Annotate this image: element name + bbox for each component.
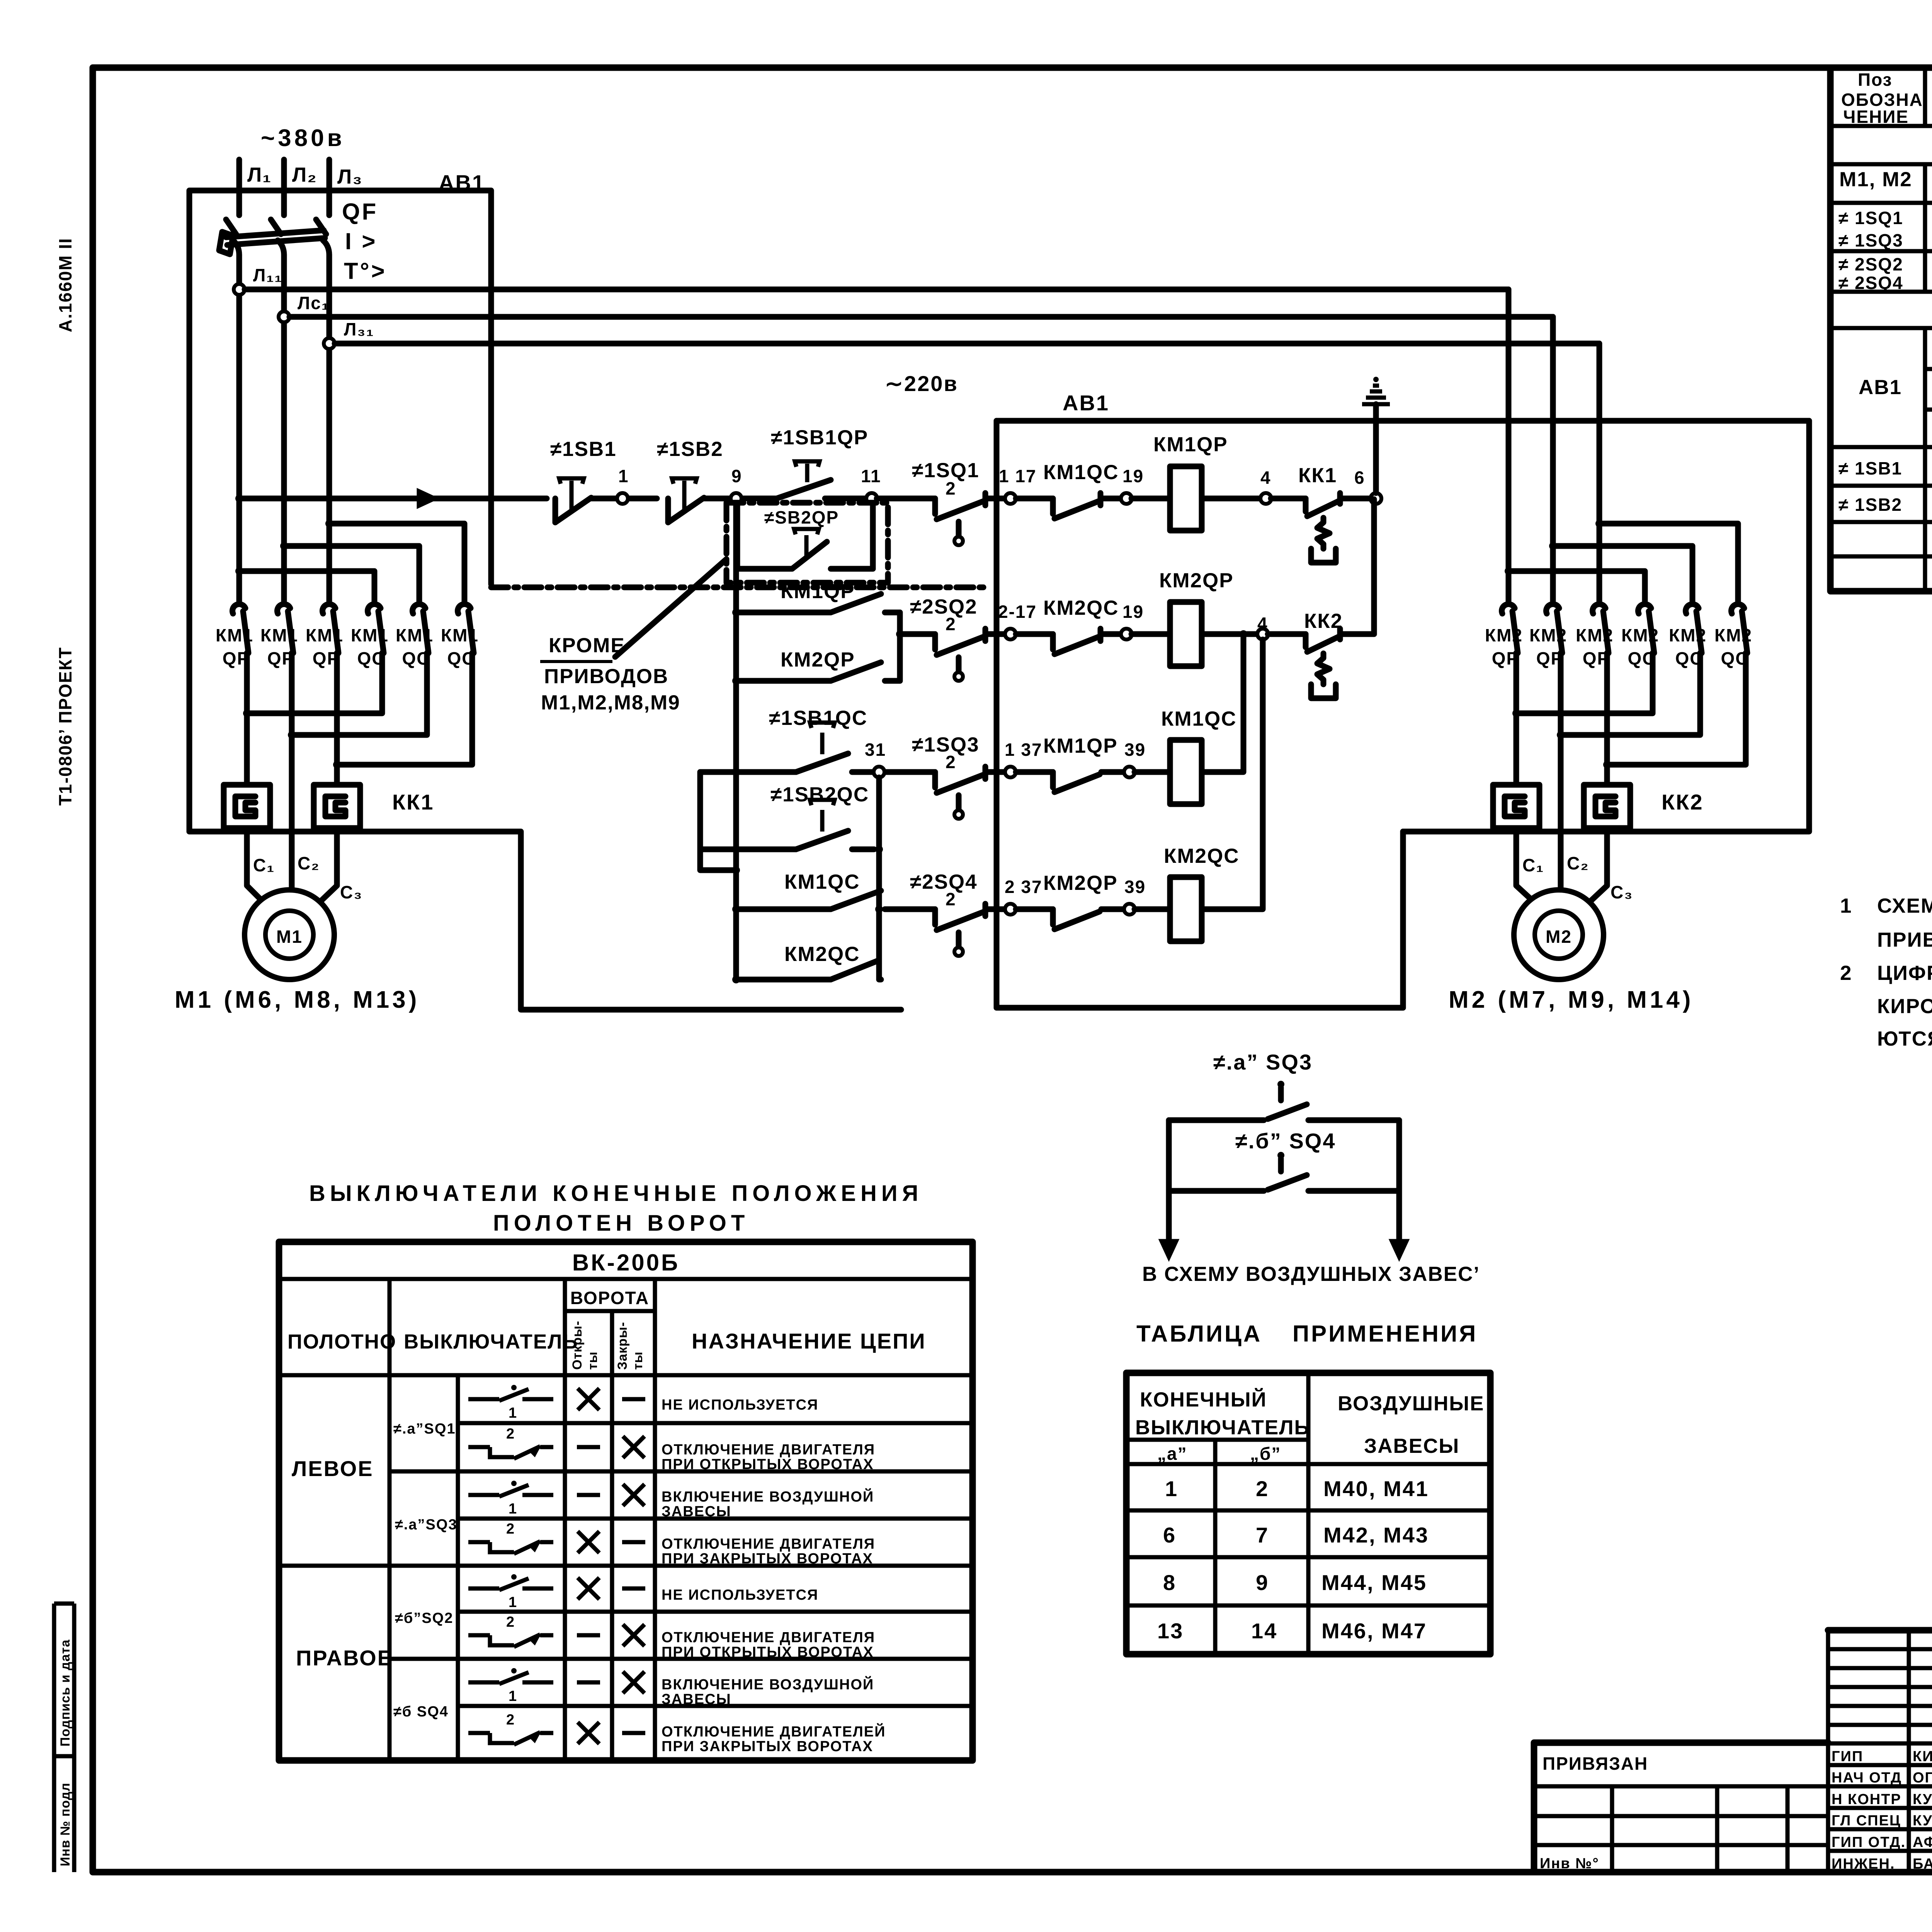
VK table symbol subcolumn line: [456, 1375, 460, 1760]
wire C3 output: [334, 653, 340, 785]
svg-text:2: 2: [506, 1614, 515, 1630]
svg-text:4: 4: [1257, 614, 1268, 634]
title block vertical 4731: [1826, 1630, 1830, 1872]
svg-text:В СХЕМУ ВОЗДУШНЫХ ЗАВЕС’: В СХЕМУ ВОЗДУШНЫХ ЗАВЕС’: [1142, 1263, 1480, 1286]
arrow down right: [1396, 1191, 1402, 1243]
svg-text:ГИП ОТД.: ГИП ОТД.: [1832, 1834, 1906, 1850]
svg-text:6: 6: [1163, 1523, 1176, 1547]
thermal relay KK2 heater phase C1: [1493, 785, 1539, 828]
VK marks row3: [577, 1493, 600, 1497]
svg-text:2-17: 2-17: [998, 602, 1037, 622]
svg-text:КМ1QР: КМ1QР: [1153, 433, 1228, 456]
svg-text:КУЗНЕЦОВ: КУЗНЕЦОВ: [1913, 1813, 1932, 1829]
wire control feed: [239, 496, 547, 502]
svg-text:Поз: Поз: [1858, 70, 1892, 90]
svg-text:КК1: КК1: [392, 790, 434, 814]
svg-text:ЛЕВОЕ: ЛЕВОЕ: [292, 1456, 374, 1481]
wire row4 left stub: [885, 906, 935, 912]
VK table header bottom line: [279, 1373, 973, 1378]
coil KM2QC: [1170, 877, 1202, 941]
svg-text:„а”: „а”: [1157, 1444, 1187, 1464]
wire right crossover to contact 6: [1599, 524, 1738, 601]
svg-text:2: 2: [506, 1712, 515, 1728]
svg-text:≠б SQ4: ≠б SQ4: [393, 1704, 449, 1720]
svg-text:ЦИФРЫ В ЛЕВОЙ ЧАСТИ ОБОЗНАЧЕН: ЦИФРЫ В ЛЕВОЙ ЧАСТИ ОБОЗНАЧЕНИЙ АППАРАТО…: [1877, 961, 1932, 985]
svg-text:2: 2: [946, 752, 956, 772]
wire QC pole6 output crossunder: [337, 653, 472, 765]
motor M1 circle: [245, 890, 334, 980]
svg-text:ОТКЛЮЧЕНИЕ ДВИГАТЕЛЯ: ОТКЛЮЧЕНИЕ ДВИГАТЕЛЯ: [662, 1536, 875, 1552]
svg-text:≠.б” SQ4: ≠.б” SQ4: [1235, 1129, 1336, 1153]
svg-text:2: 2: [946, 614, 956, 634]
svg-text:ПРИМЕНЕНИЯ: ПРИМЕНЕНИЯ: [1293, 1321, 1478, 1347]
power contact KM2 pole 5: [1686, 604, 1699, 614]
svg-text:≠1SВ1QC: ≠1SВ1QC: [769, 707, 867, 730]
svg-text:2: 2: [1840, 962, 1852, 985]
power contact KM1 pole 2: [277, 604, 290, 614]
left extension rows: [1534, 1784, 1828, 1789]
wire node9 rail: [733, 504, 739, 980]
VK row line r1: [458, 1421, 973, 1425]
VK switch symbol row5: [468, 1587, 499, 1591]
wire to coil KM1QP: [1131, 496, 1170, 502]
svg-text:М2 (М7, М9, М14): М2 (М7, М9, М14): [1449, 986, 1694, 1013]
svg-text:КОНЕЧНЫЙ: КОНЕЧНЫЙ: [1140, 1388, 1267, 1411]
svg-text:СХЕМА СОСТАВЛЕНА ДЛЯ ПРИВОДОВ: СХЕМА СОСТАВЛЕНА ДЛЯ ПРИВОДОВ М1, М2 ДЛЯ…: [1877, 895, 1932, 917]
wire C1 to motor M1: [247, 828, 264, 903]
wire L11 to right bank: [245, 287, 1509, 293]
parts table frame: [1830, 68, 1932, 591]
svg-text:КМ2QР: КМ2QР: [781, 648, 855, 671]
node L31: [324, 338, 335, 349]
VK table frame: [279, 1242, 973, 1760]
svg-text:ЮТСЯ СООТВЕТСТВЕННО С ИХ НОМЕ: ЮТСЯ СООТВЕТСТВЕННО С ИХ НОМЕРАМИ: [1877, 1027, 1932, 1050]
svg-text:QF: QF: [342, 199, 378, 224]
svg-text:Закры-: Закры-: [615, 1322, 630, 1370]
svg-text:ПРИ ЗАКРЫТЫХ ВОРОТАХ: ПРИ ЗАКРЫТЫХ ВОРОТАХ: [662, 1551, 873, 1567]
svg-text:ОТКЛЮЧЕНИЕ ДВИГАТЕЛЯ: ОТКЛЮЧЕНИЕ ДВИГАТЕЛЯ: [662, 1629, 875, 1646]
title block top grid: [1828, 1628, 1932, 1633]
svg-text:ВЫКЛЮЧАТЕЛИ КОНЕЧНЫЕ ПОЛОЖЕНИЯ: ВЫКЛЮЧАТЕЛИ КОНЕЧНЫЕ ПОЛОЖЕНИЯ: [309, 1181, 923, 1206]
svg-text:39: 39: [1124, 740, 1146, 760]
wire coil KM2QP to node 4 row2: [1202, 631, 1258, 637]
power contact KM1 pole 6: [458, 604, 471, 614]
wire C2 output: [289, 653, 295, 890]
svg-text:КМ2: КМ2: [1529, 625, 1567, 645]
flow arrow on control feed: [417, 489, 438, 508]
wire KK2 riser to node 6: [1371, 499, 1377, 634]
VK switch symbol row7: [468, 1680, 499, 1685]
svg-text:Н КОНТР: Н КОНТР: [1832, 1791, 1901, 1808]
wire 1SB2 to node 9: [704, 496, 777, 502]
node 19 row2: [1121, 629, 1132, 639]
svg-text:1: 1: [509, 1501, 517, 1517]
svg-text:≠.а” SQ3: ≠.а” SQ3: [1213, 1050, 1313, 1074]
wire C3 to motor M1: [319, 828, 337, 903]
svg-text:С₂: С₂: [298, 853, 320, 873]
svg-text:≠б”SQ2: ≠б”SQ2: [395, 1610, 453, 1626]
svg-text:КМ2: КМ2: [1714, 625, 1752, 645]
application table frame: [1126, 1373, 1490, 1654]
VK switch symbol row3: [468, 1493, 499, 1497]
wire crossover to contact 4: [239, 571, 374, 601]
svg-text:ВОРОТА: ВОРОТА: [570, 1288, 649, 1308]
VK row line r6: [389, 1657, 973, 1661]
wire phase L3 below QF: [327, 255, 332, 601]
node Lc1: [279, 311, 289, 322]
svg-text:9: 9: [1256, 1570, 1269, 1595]
svg-text:КМ2QC: КМ2QC: [1043, 597, 1119, 619]
svg-text:НАЗНАЧЕНИЕ ЦЕПИ: НАЗНАЧЕНИЕ ЦЕПИ: [692, 1329, 926, 1353]
wire coil KM2QC riser to node4: [1202, 639, 1263, 909]
arrow down left: [1166, 1191, 1172, 1243]
svg-text:ВК-200Б: ВК-200Б: [572, 1250, 680, 1276]
box AB1 control cabinet left edge: [994, 421, 1000, 1008]
svg-text:КК2: КК2: [1304, 610, 1343, 633]
svg-text:АФОНИНА: АФОНИНА: [1913, 1834, 1932, 1850]
svg-text:КМ2: КМ2: [1669, 625, 1707, 645]
svg-text:ВЫКЛЮЧАТЕЛЬ: ВЫКЛЮЧАТЕЛЬ: [404, 1330, 578, 1353]
switch SQ3: [1277, 1081, 1284, 1088]
application table column line b-zavesy: [1306, 1373, 1311, 1654]
svg-text:ЗАВЕСЫ: ЗАВЕСЫ: [662, 1503, 731, 1520]
power contact KM2 pole 2: [1546, 604, 1559, 614]
node 19 row1: [1121, 493, 1132, 504]
wire QC pole4 output crossunder: [247, 653, 382, 713]
VK table col1 line: [388, 1279, 392, 1760]
thermal relay KK2 heater phase C3: [1584, 785, 1630, 828]
wire T-contacts left rail: [700, 772, 736, 870]
boundary neutral line top: [997, 418, 1809, 424]
svg-text:КМ1: КМ1: [306, 625, 344, 645]
junction right crossover 2: [1549, 542, 1557, 550]
wire phase L1 below QF: [236, 255, 242, 601]
svg-text:ПРИ ЗАКРЫТЫХ ВОРОТАХ: ПРИ ЗАКРЫТЫХ ВОРОТАХ: [662, 1738, 873, 1755]
svg-text:Т°>: Т°>: [344, 258, 387, 284]
VK switch symbol row1: [468, 1397, 499, 1401]
wire M2 C3 output: [1604, 653, 1610, 785]
svg-text:НЕ ИСПОЛЬЗУЕТСЯ: НЕ ИСПОЛЬЗУЕТСЯ: [662, 1587, 818, 1603]
svg-text:М2: М2: [1546, 927, 1572, 947]
node 9: [731, 493, 742, 504]
svg-text:ЗАВЕСЫ: ЗАВЕСЫ: [662, 1691, 731, 1708]
svg-text:≠1SВ2QC: ≠1SВ2QC: [770, 783, 869, 806]
parts table vertical poz: [1923, 68, 1927, 126]
svg-text:ПРИВЯЗАН: ПРИВЯЗАН: [1543, 1753, 1648, 1774]
circuit breaker QF three poles with trip bar: [226, 219, 236, 234]
switch SQ4: [1277, 1152, 1284, 1159]
svg-text:ПРИ ОТКРЫТЫХ ВОРОТАХ: ПРИ ОТКРЫТЫХ ВОРОТАХ: [662, 1644, 874, 1660]
svg-text:≠1SВ2: ≠1SВ2: [657, 438, 723, 461]
svg-text:С₃: С₃: [1611, 882, 1633, 902]
svg-text:ВКЛЮЧЕНИЕ ВОЗДУШНОЙ: ВКЛЮЧЕНИЕ ВОЗДУШНОЙ: [662, 1675, 874, 1693]
svg-text:≠ 1SВ1: ≠ 1SВ1: [1838, 458, 1902, 478]
svg-text:АВ1: АВ1: [1859, 376, 1902, 399]
VK row line r5: [458, 1610, 973, 1614]
VK table vorota mid line: [610, 1311, 614, 1760]
svg-text:ПРАВОЕ: ПРАВОЕ: [296, 1646, 393, 1670]
svg-text:КМ1: КМ1: [351, 625, 389, 645]
svg-text:6: 6: [1354, 468, 1365, 488]
svg-text:С₂: С₂: [1567, 853, 1589, 873]
svg-text:≠ 2SQ4: ≠ 2SQ4: [1838, 273, 1903, 293]
parts table line row 1SQ bottom partial: [1830, 249, 1932, 253]
wire M2 C1 output: [1514, 653, 1519, 785]
svg-text:∼220в: ∼220в: [885, 371, 958, 396]
svg-text:≠ 1SQ3: ≠ 1SQ3: [1838, 230, 1903, 250]
wire KM2 QC pole5 crossunder: [1561, 653, 1700, 735]
wire to KM2QP aux: [1016, 906, 1053, 912]
svg-text:ПОЛОТЕН ВОРОТ: ПОЛОТЕН ВОРОТ: [493, 1211, 749, 1236]
svg-text:ЗАВЕСЫ: ЗАВЕСЫ: [1364, 1435, 1459, 1458]
svg-text:АВ1: АВ1: [1063, 391, 1109, 415]
svg-text:ОТКЛЮЧЕНИЕ ДВИГАТЕЛЯ: ОТКЛЮЧЕНИЕ ДВИГАТЕЛЯ: [662, 1442, 875, 1458]
wire phase L2 below QF: [281, 255, 287, 601]
svg-text:≠SВ2QР: ≠SВ2QР: [764, 507, 839, 527]
wire phase drop right 2: [1550, 317, 1556, 601]
coil KM2QP: [1170, 602, 1202, 666]
wire QC pole5 output crossunder: [292, 653, 427, 735]
wire crossover to contact 6: [329, 524, 464, 601]
svg-text:ПРИВОДОВ СХЕМА АНАЛОГИЧНА: ПРИВОДОВ СХЕМА АНАЛОГИЧНА: [1877, 929, 1932, 951]
svg-text:Л₁₁: Л₁₁: [253, 265, 282, 285]
svg-text:39: 39: [1124, 877, 1146, 897]
boundary line left bottom: [189, 832, 901, 1010]
svg-text:31: 31: [865, 740, 886, 760]
svg-text:Л₂: Л₂: [292, 163, 317, 186]
node 1: [617, 493, 628, 504]
wire node6 riser to neutral: [1373, 421, 1379, 493]
svg-text:Инв № подл: Инв № подл: [58, 1782, 73, 1866]
wire node4 to KK1: [1271, 496, 1306, 502]
svg-text:КК1: КК1: [1298, 464, 1337, 487]
wire node31 riser: [876, 777, 882, 980]
wire KM2 QC pole4 crossunder: [1516, 653, 1653, 713]
coil KM1QP: [1170, 466, 1202, 531]
wire SQ3 top line: [1169, 1117, 1264, 1123]
VK marks row6: [577, 1633, 600, 1638]
box AB1 power cabinet: [189, 190, 491, 832]
svg-text:КМ2: КМ2: [1576, 625, 1614, 645]
svg-text:„б”: „б”: [1250, 1444, 1281, 1464]
svg-text:КМ2QР: КМ2QР: [1043, 872, 1118, 895]
svg-text:КМ2: КМ2: [1621, 625, 1659, 645]
svg-text:≠2SQ4: ≠2SQ4: [910, 871, 978, 893]
svg-text:ПРИ ОТКРЫТЫХ ВОРОТАХ: ПРИ ОТКРЫТЫХ ВОРОТАХ: [662, 1456, 874, 1473]
VK table header row line VK200B: [279, 1277, 973, 1281]
svg-text:КИРОВОК ЦЕПЕЙ ОБОЗНАЧАЮТ НОМЕР: КИРОВОК ЦЕПЕЙ ОБОЗНАЧАЮТ НОМЕРА ПРИВОДОВ…: [1877, 994, 1932, 1018]
box AB1 control cabinet right edge: [1400, 832, 1406, 1008]
svg-text:М1 (М6, М8, М13): М1 (М6, М8, М13): [175, 986, 420, 1013]
svg-text:КМ1: КМ1: [441, 625, 479, 645]
motor M2 circle: [1514, 890, 1604, 980]
pushbutton 1SB2: [665, 498, 671, 522]
svg-text:Откры-: Откры-: [570, 1321, 585, 1370]
wire hold pair riser to row2: [897, 612, 903, 681]
boundary right descend: [1403, 421, 1809, 832]
svg-text:2: 2: [946, 478, 956, 498]
junction phase L1 control tap: [235, 495, 243, 502]
terminal 2-17: [1005, 629, 1016, 639]
leader line krome: [615, 559, 726, 657]
wire coil KM1QC riser to row2: [1202, 634, 1243, 772]
svg-text:2: 2: [506, 1426, 515, 1442]
wire phase L3 top: [327, 160, 332, 215]
svg-text:13: 13: [1157, 1619, 1184, 1643]
svg-text:КМ1QР: КМ1QР: [1043, 735, 1118, 757]
contact 1SB1QP with plunger: [777, 480, 831, 498]
svg-text:4: 4: [1260, 468, 1271, 488]
wire 1SB1 to node 1: [591, 496, 657, 502]
svg-text:1 37: 1 37: [1005, 740, 1043, 760]
power contact KM1 pole 4: [368, 604, 381, 614]
thermal relay KK1 heater phase C3: [314, 785, 360, 828]
svg-text:М1, М2: М1, М2: [1839, 168, 1912, 191]
wire row3 left stub: [884, 769, 935, 775]
svg-text:Инв №°: Инв №°: [1540, 1855, 1599, 1872]
wire phase L2 top: [281, 160, 287, 215]
svg-text:С₃: С₃: [340, 882, 363, 902]
VK row line r3: [458, 1517, 973, 1521]
VK table vorota header underline: [565, 1309, 655, 1313]
wire right vertical: [1396, 1120, 1402, 1191]
svg-text:ПОЛОТНО: ПОЛОТНО: [287, 1330, 396, 1353]
svg-text:КМ2: КМ2: [1485, 625, 1523, 645]
svg-text:ВОЗДУШНЫЕ: ВОЗДУШНЫЕ: [1338, 1392, 1485, 1415]
power contact KM1 pole 1: [233, 604, 245, 614]
svg-text:≠ 1SВ2: ≠ 1SВ2: [1838, 495, 1902, 515]
svg-text:АВ1: АВ1: [439, 170, 485, 195]
svg-text:ГИП: ГИП: [1832, 1748, 1863, 1765]
svg-text:ИНЖЕН.: ИНЖЕН.: [1832, 1856, 1895, 1872]
parts table sublines AB1 naimenovanie: [1925, 367, 1932, 371]
pushbutton 1SB1: [553, 498, 558, 522]
svg-text:ОТКЛЮЧЕНИЕ ДВИГАТЕЛЕЙ: ОТКЛЮЧЕНИЕ ДВИГАТЕЛЕЙ: [662, 1723, 886, 1740]
wire row2 left stub: [900, 631, 935, 637]
svg-text:1: 1: [1840, 895, 1852, 917]
svg-text:БАБЫЛЬКОВА: БАБЫЛЬКОВА: [1913, 1856, 1932, 1872]
application table row line 2: [1126, 1509, 1490, 1513]
svg-text:КМ1QC: КМ1QC: [1043, 461, 1119, 484]
svg-text:ТАБЛИЦА: ТАБЛИЦА: [1136, 1321, 1262, 1347]
svg-text:Л₃₁: Л₃₁: [344, 319, 374, 339]
svg-text:2: 2: [1256, 1476, 1269, 1501]
wire to coil KM1QC: [1134, 769, 1170, 775]
wire left vertical: [1166, 1120, 1172, 1191]
wire phase drop right 1: [1506, 289, 1512, 601]
svg-text:КМ1QC: КМ1QC: [784, 871, 860, 893]
wire C1 to motor M2: [1516, 828, 1535, 903]
wire KM2 QC pole6 crossunder: [1607, 653, 1746, 765]
svg-text:ОГУРЦОВ: ОГУРЦОВ: [1913, 1770, 1932, 1786]
svg-text:ты: ты: [631, 1351, 645, 1370]
title block outline top: [1828, 1627, 1932, 1634]
svg-text:1: 1: [509, 1688, 517, 1704]
title block vertical 4940: [1907, 1630, 1911, 1872]
application table row line 3: [1126, 1555, 1490, 1560]
terminal 2-37: [1005, 904, 1016, 915]
svg-text:9: 9: [731, 466, 742, 486]
left bottom strip box Podpis i data: [54, 1602, 74, 1606]
wire to KM1QC aux: [1016, 496, 1053, 502]
svg-text:11: 11: [861, 466, 881, 486]
wire phase drop right 3: [1597, 344, 1602, 601]
svg-text:КМ1: КМ1: [396, 625, 434, 645]
svg-text:~380в: ~380в: [261, 125, 345, 151]
svg-text:19: 19: [1122, 602, 1144, 622]
svg-text:2: 2: [506, 1521, 515, 1537]
svg-text:КМ2QР: КМ2QР: [1159, 569, 1234, 592]
wire C1 output: [244, 653, 250, 785]
application table row line 1: [1126, 1462, 1490, 1466]
application table row line 4: [1126, 1604, 1490, 1608]
power contact KM1 pole 5: [413, 604, 425, 614]
svg-text:1: 1: [1165, 1476, 1178, 1501]
wire to KM1QP aux: [1016, 769, 1053, 775]
ground symbol: [1373, 404, 1379, 421]
wire node11 to 1SQ1: [877, 496, 935, 502]
svg-text:А.1660М II: А.1660М II: [55, 238, 75, 332]
thermal relay KK1 heater phase C1: [224, 785, 270, 828]
left extension columns: [1610, 1786, 1614, 1872]
dash-dot boundary line to control box: [491, 585, 989, 590]
svg-text:ты: ты: [585, 1351, 600, 1370]
box AB1 control cabinet bottom: [997, 1005, 1403, 1011]
svg-text:2 37: 2 37: [1005, 877, 1043, 897]
terminal 1-37: [1005, 767, 1016, 777]
svg-text:КУЗНЕЦОВ: КУЗНЕЦОВ: [1913, 1791, 1932, 1808]
svg-text:ПРИВОДОВ: ПРИВОДОВ: [544, 665, 668, 688]
VK marks row5: [578, 1578, 599, 1599]
wire phase L1 top: [236, 160, 242, 215]
node 11: [866, 493, 877, 504]
application table column line a-b: [1213, 1440, 1218, 1654]
svg-text:1: 1: [509, 1405, 517, 1421]
svg-text:КРОМЕ: КРОМЕ: [549, 634, 625, 657]
svg-text:КМ2QC: КМ2QC: [784, 943, 860, 966]
svg-text:Л₃: Л₃: [337, 165, 363, 188]
title block main row lines: [1534, 1742, 1932, 1746]
VK row line r7: [458, 1704, 973, 1708]
svg-text:1: 1: [618, 466, 629, 486]
application table header underline cols ab: [1126, 1438, 1308, 1442]
svg-text:М46, М47: М46, М47: [1321, 1619, 1427, 1643]
wire to KM2QC aux: [1016, 631, 1053, 637]
terminal 1-17: [1005, 493, 1016, 504]
VK marks row4: [578, 1531, 599, 1553]
svg-text:КМ1: КМ1: [216, 625, 253, 645]
svg-text:КМ1: КМ1: [260, 625, 298, 645]
node 31: [874, 767, 884, 777]
svg-text:Т1-0806’ ПРОЕКТ: Т1-0806’ ПРОЕКТ: [55, 647, 75, 806]
junction L3 crossover: [325, 520, 333, 527]
svg-text:I >: I >: [345, 228, 377, 254]
VK row line r4: [279, 1564, 973, 1568]
svg-text:Подпись и дата: Подпись и дата: [58, 1639, 73, 1747]
svg-text:ГЛ СПЕЦ: ГЛ СПЕЦ: [1832, 1813, 1901, 1829]
VK row line r2: [389, 1469, 973, 1474]
left extension box: [1534, 1743, 1828, 1872]
svg-text:≠ 1SQ1: ≠ 1SQ1: [1838, 208, 1903, 228]
svg-text:7: 7: [1256, 1523, 1269, 1547]
junction right crossover 3: [1595, 520, 1603, 527]
node 4 row1: [1260, 493, 1271, 504]
wire to coil KM2QC: [1134, 906, 1170, 912]
wire L31 to right bank: [335, 341, 1599, 347]
dashed box krome privodov: [726, 503, 888, 583]
wire right crossover to contact 5: [1553, 546, 1692, 601]
svg-text:Лс₁: Лс₁: [298, 293, 330, 313]
